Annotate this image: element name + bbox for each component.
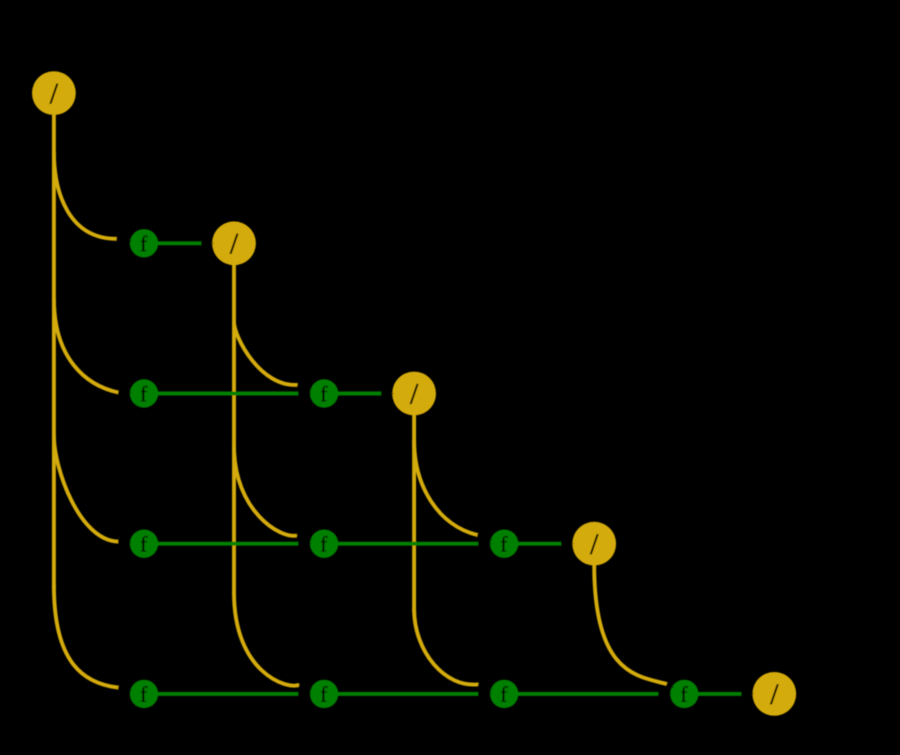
arrowhead fold3 to f r4c3 xyxy=(665,681,674,688)
wire fold3 to f r4c3 curve xyxy=(594,565,667,684)
arrowhead f r3c0 out xyxy=(298,540,312,547)
wire fold0 to f r1c0 curve xyxy=(54,152,117,239)
wire fold0 trunk vertical xyxy=(52,115,56,588)
wire fold1 to f r3c1 curve xyxy=(234,446,297,536)
arrowhead f r3c2 out xyxy=(561,540,574,547)
arrowhead fold2 to f r3c2 xyxy=(476,532,492,540)
arrowhead fold0 to f r1c0 xyxy=(116,235,132,242)
fold node /0 xyxy=(32,71,76,115)
wire fold0 to f r3c0 curve xyxy=(54,436,118,542)
arrowhead fold0 to f r3c0 xyxy=(118,538,132,545)
wire fold1 trunk vertical xyxy=(232,265,236,596)
fold node /3 xyxy=(572,522,616,566)
arrowhead f r4c2 out xyxy=(658,691,672,698)
f node r4c3 xyxy=(670,680,698,708)
f node r2c0 xyxy=(130,379,158,407)
wire f r3c2 out xyxy=(518,542,561,546)
f node r3c0 xyxy=(130,530,158,558)
wire fold2 to f r4c2 curve xyxy=(414,609,478,685)
arrowhead fold0 to f r4c0 xyxy=(118,684,133,691)
wire fold2 trunk vertical xyxy=(412,415,416,612)
arrowhead fold2 to f r4c2 xyxy=(477,681,493,690)
arrowhead fold1 to f r4c1 xyxy=(298,682,313,690)
f node r4c1 xyxy=(310,680,338,708)
wire f r3c1 out xyxy=(338,542,478,546)
wire f r4c3 out xyxy=(698,692,741,696)
f node r2c1 xyxy=(310,379,338,407)
arrowhead fold1 to f r3c1 xyxy=(296,532,312,540)
fold node /4 xyxy=(752,672,796,716)
arrowhead f r4c0 out xyxy=(298,691,312,698)
arrowhead f r4c1 out xyxy=(478,691,492,698)
wire fold0 to f r4c0 curve xyxy=(54,585,118,688)
wire f r3c0 out xyxy=(158,542,298,546)
wire fold1 to f r2c1 curve xyxy=(234,322,298,385)
arrowhead f r2c0 out xyxy=(298,390,312,397)
wire fold1 to f r4c1 curve xyxy=(234,593,299,686)
wire f r2c1 out xyxy=(338,392,381,396)
wire f r4c1 out xyxy=(338,692,478,696)
arrowhead f r4c3 out xyxy=(741,691,754,698)
wire f r4c2 out xyxy=(518,692,658,696)
f node r1c0 xyxy=(130,229,158,257)
f node r4c2 xyxy=(490,680,518,708)
fold node /2 xyxy=(392,372,436,416)
wire f r4c0 out xyxy=(158,692,298,696)
f node r3c1 xyxy=(310,530,338,558)
fold node /1 xyxy=(212,221,256,265)
arrowhead fold0 to f r2c0 xyxy=(118,389,132,396)
arrowhead f r2c1 out xyxy=(381,390,394,397)
f node r3c2 xyxy=(490,530,518,558)
wire fold2 to f r3c2 curve xyxy=(414,440,477,535)
f node r4c0 xyxy=(130,680,158,708)
wire fold0 to f r2c0 curve xyxy=(54,298,118,392)
wire f r1c0 out xyxy=(158,241,201,245)
arrowhead f r3c1 out xyxy=(478,540,492,547)
arrowhead f r1c0 out xyxy=(201,240,214,247)
wire f r2c0 out xyxy=(158,392,298,396)
arrowhead fold1 to f r2c1 xyxy=(296,382,312,390)
